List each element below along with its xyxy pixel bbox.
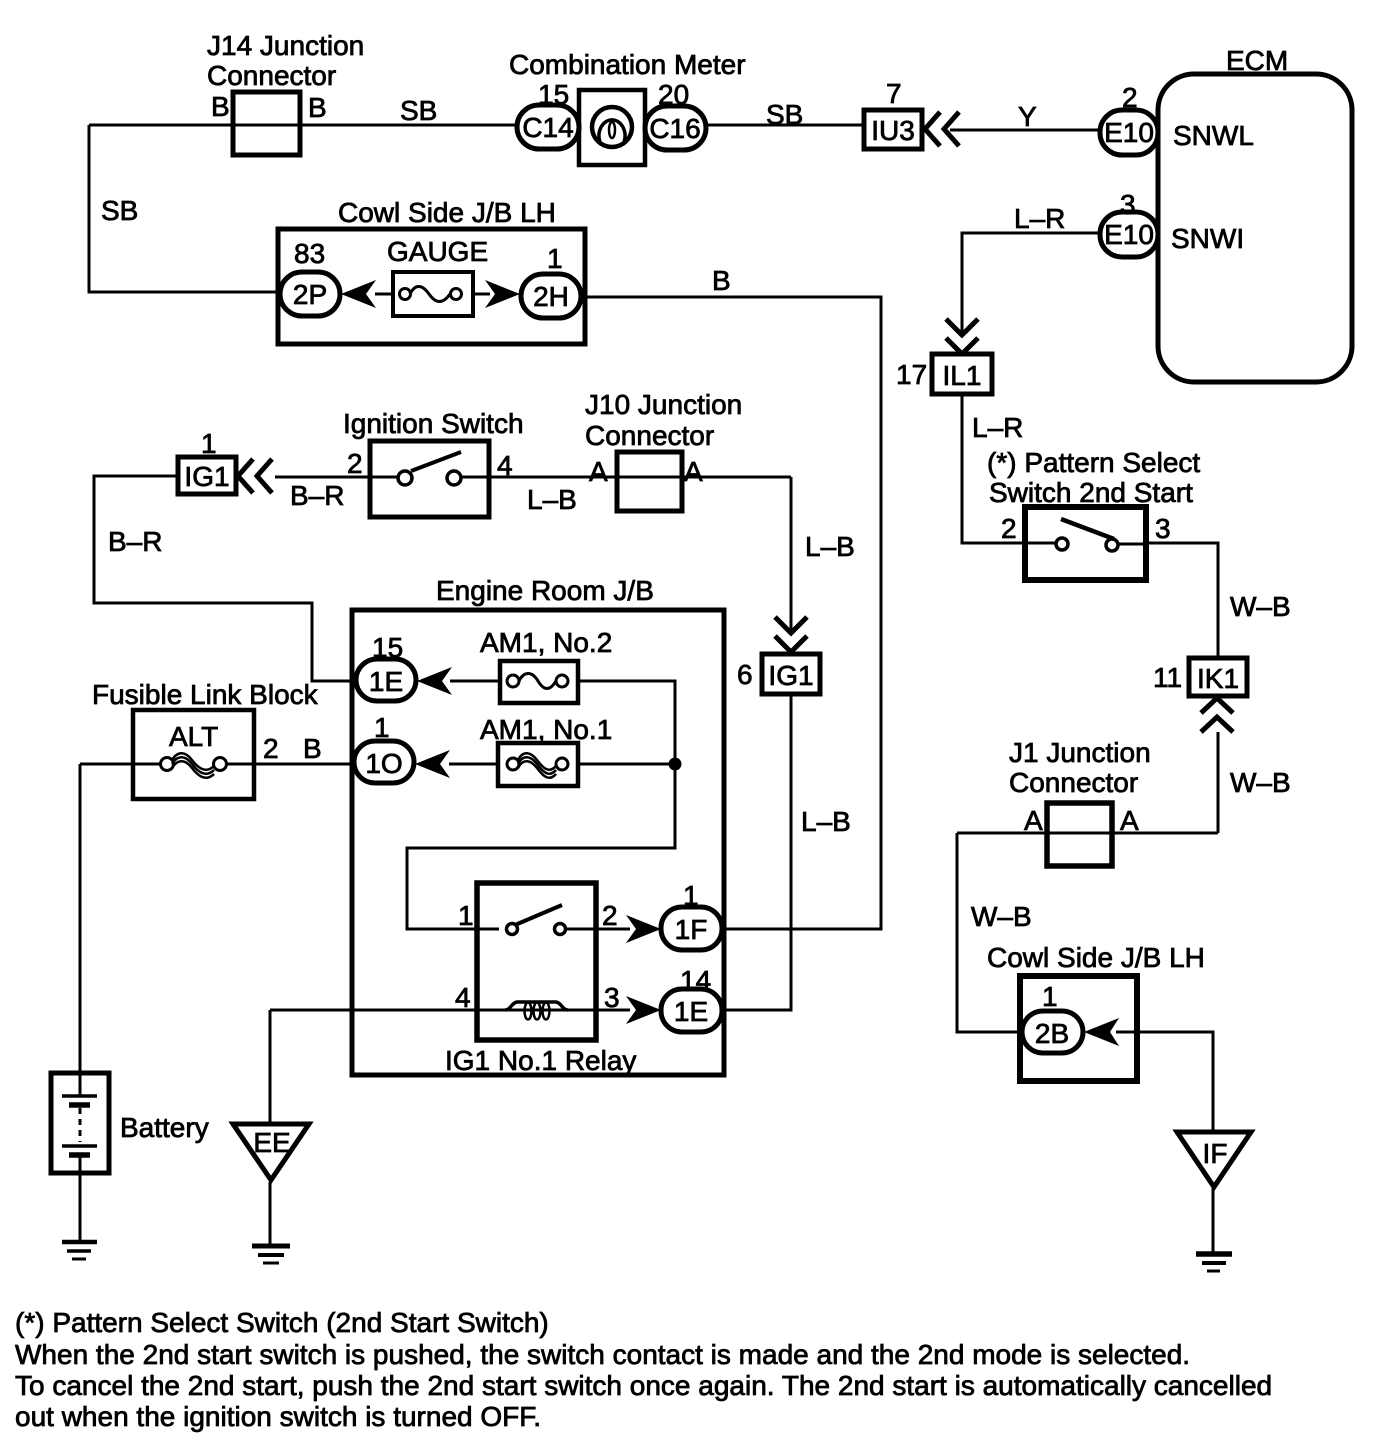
wire: pattern select internal stubs [1028, 543, 1146, 544]
svg-text:15: 15 [372, 632, 403, 663]
svg-text:IG1 No.1 Relay: IG1 No.1 Relay [445, 1045, 636, 1076]
svg-text:6: 6 [737, 659, 753, 690]
svg-text:Combination Meter: Combination Meter [509, 49, 746, 80]
svg-text:4: 4 [455, 982, 471, 1013]
wire B-R: IG1 left loop down to 1E [94, 476, 358, 681]
connector C16 [645, 106, 706, 150]
svg-text:J10 Junction: J10 Junction [585, 389, 742, 420]
svg-text:IL1: IL1 [943, 360, 982, 391]
IG1 No.1 relay box [477, 883, 596, 1040]
arrow into 1E pin14 [626, 996, 661, 1024]
svg-text:J1 Junction: J1 Junction [1009, 737, 1151, 768]
AM1 No.1 fuse [498, 743, 578, 786]
svg-text:1: 1 [458, 900, 474, 931]
connector IU3 [864, 110, 922, 149]
svg-text:83: 83 [294, 238, 325, 269]
wire: AM1 No.2 fuse to junction riser, down, left, down to relay pin1 [407, 681, 675, 929]
svg-text:L–B: L–B [801, 806, 851, 837]
wire SB: J14 row from left riser to IU3 [89, 124, 864, 127]
svg-text:EE: EE [253, 1127, 290, 1158]
svg-text:A: A [684, 456, 703, 487]
svg-text:W–B: W–B [1230, 767, 1291, 798]
svg-text:A: A [1120, 805, 1139, 836]
wire W-B: J1 junction row [957, 832, 1218, 835]
svg-text:IU3: IU3 [871, 115, 915, 146]
svg-text:AM1, No.2: AM1, No.2 [480, 627, 612, 658]
connector 1E pin14 [661, 989, 722, 1032]
arrow into 2H [485, 280, 520, 308]
chevrons into IL1 [946, 319, 978, 354]
pattern select switch box [1025, 507, 1146, 580]
wire: relay pin3 to 1E arrow [596, 1009, 630, 1012]
svg-text:15: 15 [538, 79, 569, 110]
svg-text:B: B [712, 265, 731, 296]
svg-text:GAUGE: GAUGE [387, 236, 488, 267]
svg-text:SB: SB [101, 195, 138, 226]
svg-text:2B: 2B [1035, 1018, 1069, 1049]
wire: 1O arrow to AM1 No.1 fuse [449, 763, 507, 766]
svg-text:1: 1 [547, 243, 563, 274]
relay switch contacts [507, 905, 566, 935]
arrow into 2B [1084, 1018, 1119, 1046]
svg-text:Cowl Side J/B LH: Cowl Side J/B LH [987, 942, 1205, 973]
svg-text:A: A [1024, 805, 1043, 836]
svg-text:SB: SB [400, 95, 437, 126]
svg-text:ECM: ECM [1226, 45, 1288, 76]
ground symbol EE triangle [233, 1124, 309, 1180]
chevrons into IG1 connector 6 [775, 617, 807, 652]
svg-text:AM1, No.1: AM1, No.1 [480, 714, 612, 745]
svg-text:When the 2nd start switch is p: When the 2nd start switch is pushed, the… [15, 1339, 1190, 1370]
svg-text:W–B: W–B [971, 901, 1032, 932]
svg-text:ALT: ALT [169, 721, 218, 752]
ignition switch box [370, 441, 489, 517]
Engine Room J/B box [352, 610, 724, 1075]
svg-text:1E: 1E [674, 996, 708, 1027]
svg-text:C14: C14 [522, 112, 573, 143]
svg-text:11: 11 [1153, 662, 1182, 693]
svg-text:SNWI: SNWI [1171, 223, 1244, 254]
svg-text:E10: E10 [1104, 219, 1154, 250]
wire B: 2H right, down, to 1F [560, 297, 881, 929]
svg-text:2: 2 [1122, 82, 1138, 113]
svg-text:SNWL: SNWL [1173, 120, 1254, 151]
arrow into 1F [626, 915, 661, 943]
ground (EE) [252, 1246, 290, 1263]
svg-text:1: 1 [683, 880, 699, 911]
wire L-R: ECM E10 pin3 left then down to IL1 [962, 233, 1102, 333]
ignition switch contacts [398, 452, 461, 485]
svg-text:3: 3 [1155, 513, 1171, 544]
svg-text:Cowl Side J/B LH: Cowl Side J/B LH [338, 197, 556, 228]
connector 1O pin1 [354, 741, 414, 783]
wire W-B: IK1 chevrons down to J1 row [1217, 732, 1220, 833]
svg-text:(*) Pattern Select Switch (2nd: (*) Pattern Select Switch (2nd Start Swi… [15, 1307, 549, 1338]
wire L-B: IG1 connector 6 down to 1E pin14 [722, 694, 791, 1010]
svg-text:W–B: W–B [1230, 591, 1291, 622]
svg-text:17: 17 [896, 359, 927, 390]
chevrons into IG1 left [238, 459, 272, 493]
connector E10 pin2 [1100, 110, 1158, 155]
arrow into 2P [341, 280, 376, 308]
wire SB: left riser down to Cowl Side J/B LH [89, 125, 285, 292]
junction dot [669, 758, 682, 771]
connector 1E pin15 [356, 659, 416, 701]
svg-text:1: 1 [374, 712, 390, 743]
connector E10 pin3 [1100, 212, 1158, 257]
svg-text:1O: 1O [365, 748, 402, 779]
wire: 2B arrow to IF riser [1116, 1032, 1213, 1132]
ground symbol IF triangle [1177, 1132, 1251, 1187]
connector IK1 [1189, 658, 1247, 696]
GAUGE fuse [375, 272, 490, 316]
svg-text:1F: 1F [675, 914, 708, 945]
svg-text:SB: SB [766, 99, 803, 130]
J10 junction connector box [617, 452, 682, 511]
svg-text:1: 1 [201, 428, 217, 459]
svg-text:Connector: Connector [585, 420, 714, 451]
svg-text:L–R: L–R [972, 412, 1023, 443]
svg-text:L–R: L–R [1014, 203, 1065, 234]
wire: AM1 No.1 fuse to junction dot [568, 763, 675, 766]
svg-text:IG1: IG1 [768, 660, 813, 691]
svg-text:7: 7 [886, 78, 902, 109]
svg-text:2: 2 [347, 448, 363, 479]
chevrons into IK1 [1201, 698, 1233, 732]
svg-text:Connector: Connector [1009, 767, 1138, 798]
connector 2B [1022, 1011, 1083, 1053]
ground (battery) [62, 1242, 97, 1259]
ALT fusible link symbol [161, 753, 227, 778]
wire: 1E arrow to AM1 No.2 fuse [450, 680, 507, 683]
battery [51, 1073, 109, 1173]
chevrons into IU3 [925, 112, 959, 146]
svg-text:To cancel the 2nd start, push: To cancel the 2nd start, push the 2nd st… [15, 1370, 1272, 1401]
svg-text:1E: 1E [369, 666, 403, 697]
J1 junction connector box [1047, 803, 1112, 866]
arrow into 1O [415, 750, 450, 778]
svg-text:C16: C16 [649, 113, 700, 144]
svg-text:B–R: B–R [108, 526, 162, 557]
svg-text:3: 3 [1120, 189, 1136, 220]
svg-text:IK1: IK1 [1197, 663, 1239, 694]
Cowl Side J/B LH box (bottom) [1020, 976, 1137, 1081]
svg-text:Switch 2nd Start: Switch 2nd Start [989, 477, 1193, 508]
combination meter box [579, 90, 645, 165]
svg-text:Fusible Link Block: Fusible Link Block [92, 679, 319, 710]
combination meter bulb symbol [592, 107, 632, 147]
svg-text:Ignition Switch: Ignition Switch [343, 408, 524, 439]
wire: relay pin1 internal segment [479, 928, 596, 931]
svg-text:J14 Junction: J14 Junction [207, 30, 364, 61]
AM1 No.2 fuse [500, 661, 578, 703]
svg-text:out when the ignition switch i: out when the ignition switch is turned O… [15, 1401, 541, 1432]
svg-text:IG1: IG1 [184, 461, 229, 492]
wire: relay pin2 to 1F arrow [596, 928, 630, 931]
ground (IF) [1196, 1254, 1232, 1271]
svg-text:(*) Pattern Select: (*) Pattern Select [987, 447, 1200, 478]
svg-text:Connector: Connector [207, 60, 336, 91]
wire: relay coil line pin4-pin3 [270, 1009, 596, 1012]
svg-text:A: A [589, 456, 608, 487]
svg-text:2: 2 [1001, 513, 1017, 544]
Cowl Side J/B LH box (top) [278, 229, 585, 344]
svg-text:20: 20 [658, 79, 689, 110]
svg-text:B: B [303, 733, 322, 764]
wire W-B: pattern select pin3 to IK1 [1144, 543, 1218, 660]
connector 2P [280, 272, 340, 316]
wire: IF triangle to ground [1212, 1185, 1215, 1253]
svg-text:Battery: Battery [120, 1112, 209, 1143]
svg-text:2H: 2H [533, 281, 569, 312]
fusible link block ALT box [133, 710, 254, 799]
svg-text:L–B: L–B [805, 531, 855, 562]
svg-text:IF: IF [1203, 1138, 1228, 1169]
svg-text:4: 4 [497, 450, 513, 481]
connector IG1 (ignition key side) [178, 457, 236, 494]
svg-text:14: 14 [680, 965, 711, 996]
wire B-R: ignition switch row (chevrons to J10 to L-B riser) [275, 476, 791, 479]
svg-text:3: 3 [604, 982, 620, 1013]
wire Y: IU3 chevrons to ECM E10 pin2 [950, 129, 1102, 132]
svg-text:2: 2 [602, 900, 618, 931]
wire L-R: IL1 down to pattern select switch pin2 [962, 394, 1027, 543]
svg-text:2: 2 [263, 733, 279, 764]
svg-text:E10: E10 [1104, 117, 1154, 148]
wire B: ALT to battery riser and 1O [80, 763, 356, 766]
svg-text:Engine Room J/B: Engine Room J/B [436, 575, 654, 606]
svg-text:2P: 2P [293, 279, 327, 310]
J14 junction connector box [233, 92, 300, 155]
pattern select switch contacts [1056, 519, 1118, 551]
svg-text:L–B: L–B [527, 484, 577, 515]
connector IG1 (engine room 6) [762, 654, 820, 694]
wire L-B: J10 riser down to IG1 connector 6 [790, 477, 793, 631]
svg-text:B–R: B–R [290, 480, 344, 511]
ECM box [1158, 74, 1352, 382]
svg-text:B: B [211, 91, 230, 122]
wire: EE riser down from relay pin4 wire [269, 1010, 272, 1246]
wire W-B: J1 left down to 2B [957, 833, 1024, 1032]
wire: battery riser down to ground [79, 764, 82, 1242]
connector 1F pin1 [661, 907, 722, 950]
arrow into 1E [417, 667, 452, 695]
connector C14 [517, 105, 579, 149]
connector 2H [521, 274, 581, 318]
connector IL1 [932, 354, 992, 394]
svg-text:B: B [308, 92, 327, 123]
relay coil [505, 1002, 568, 1020]
svg-text:Y: Y [1018, 101, 1037, 132]
svg-text:1: 1 [1042, 981, 1058, 1012]
